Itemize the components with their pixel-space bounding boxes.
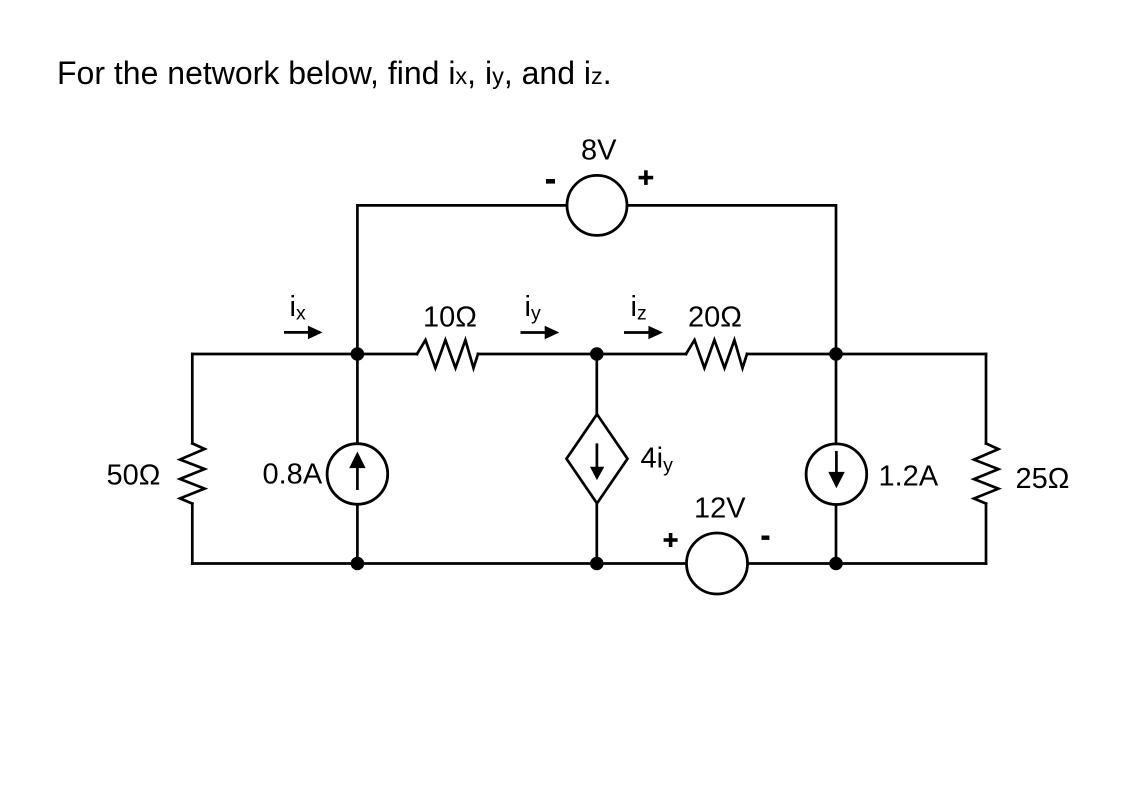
dependent source diamond 4iy — [567, 414, 628, 503]
wire middle horizontal right segment — [747, 353, 986, 356]
wire left branch upper — [191, 354, 194, 443]
resistor 25ohm zigzag — [974, 444, 998, 504]
node B junction dot (top middle) — [590, 347, 604, 361]
svg-text:For the network below, find ix: For the network below, find ix, iy, and … — [57, 55, 612, 91]
voltage source V2 12V circle — [687, 533, 748, 594]
wire right branch upper — [985, 354, 988, 444]
node D junction dot (bottom left) — [351, 557, 365, 571]
wire right branch lower — [985, 504, 988, 564]
wire left branch lower — [191, 504, 194, 564]
current source I1 0.8A circle — [327, 444, 388, 505]
node E junction dot (bottom middle) — [590, 557, 604, 571]
current arrow iz — [624, 326, 663, 340]
svg-text:1.2A: 1.2A — [879, 460, 939, 492]
wire top loop (left riser, top run, right riser) — [357, 205, 836, 354]
arrow inside 0.8A source (up) — [349, 452, 365, 491]
svg-text:8V: 8V — [581, 135, 617, 167]
voltage source V1 8V circle — [567, 175, 627, 235]
node A junction dot (top left) — [351, 347, 365, 361]
svg-text:10Ω: 10Ω — [423, 302, 477, 334]
arrow inside dependent source (down) — [590, 443, 604, 480]
resistor 10ohm zigzag — [417, 340, 478, 368]
current arrow iy — [521, 326, 560, 340]
svg-text:12V: 12V — [694, 493, 746, 525]
node C junction dot (top right) — [829, 347, 843, 361]
wire dependent source branch — [595, 354, 598, 564]
node F junction dot (bottom right) — [829, 557, 843, 571]
svg-text:0.8A: 0.8A — [263, 459, 323, 491]
svg-text:20Ω: 20Ω — [688, 302, 742, 334]
resistor 20ohm zigzag — [686, 340, 747, 368]
polarity plus of 12V — [664, 533, 678, 547]
wire middle horizontal center segment — [478, 353, 686, 356]
wire middle horizontal left segment — [192, 353, 417, 356]
polarity minus of 12V — [762, 536, 770, 540]
svg-text:50Ω: 50Ω — [107, 460, 161, 492]
polarity plus of 8V — [639, 170, 654, 185]
wire bottom run — [192, 562, 986, 565]
current arrow ix — [284, 326, 323, 340]
wire 1.2A source branch — [835, 354, 838, 564]
polarity minus of 8V — [546, 179, 555, 184]
resistor 50ohm zigzag — [180, 443, 205, 503]
wire 0.8A source branch — [356, 354, 359, 564]
arrow inside 1.2A source (down) — [828, 451, 845, 488]
svg-text:25Ω: 25Ω — [1016, 463, 1070, 495]
current source I2 1.2A circle — [806, 444, 867, 505]
